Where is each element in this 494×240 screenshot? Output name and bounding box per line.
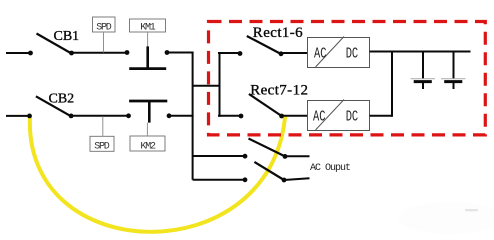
- rectifier U1 box: [308, 38, 370, 68]
- contactor KM1 armature: [146, 46, 149, 67]
- SPD box SPD2: [90, 136, 114, 151]
- node CB2 input: [27, 114, 32, 119]
- wire KM1 box drop: [147, 32, 149, 47]
- wire U1 output bus: [370, 51, 471, 53]
- node AC out 1 right: [283, 154, 288, 159]
- node CB1 output: [69, 51, 74, 56]
- wire SPD1 drop: [103, 32, 105, 53]
- wire CB1 to KM1: [72, 52, 128, 54]
- wire Rect7-12 switch to rectifier U2: [282, 115, 308, 117]
- node KM1 left: [125, 50, 130, 55]
- wire main DC bus vertical: [192, 53, 194, 180]
- wire CB1 input stub: [6, 52, 31, 54]
- contactor KM1 bar: [129, 67, 166, 70]
- capacitor C2 top plate: [441, 78, 466, 80]
- capacitor C1 bottom plate: [414, 80, 432, 83]
- breaker CB2 blade: [36, 96, 71, 116]
- KM1 coil box: [130, 19, 166, 32]
- node AC out 2 right: [282, 178, 287, 183]
- wire AC out 1: [285, 155, 310, 157]
- node CB2 output: [69, 114, 74, 119]
- switch Rect1-6 blade: [247, 36, 281, 54]
- wire SPD2 drop: [102, 116, 104, 136]
- svg-text:Rect7-12: Rect7-12: [250, 82, 308, 98]
- svg-text:KM1: KM1: [140, 23, 156, 34]
- contactor KM2 armature: [148, 101, 151, 123]
- svg-text:KM2: KM2: [140, 141, 156, 152]
- SPD box SPD1: [93, 17, 116, 32]
- svg-text:AC: AC: [314, 45, 327, 62]
- wire U2 output riser: [391, 52, 393, 117]
- wire AC out 2: [284, 178, 310, 180]
- svg-text:DC: DC: [346, 108, 359, 125]
- node KM2 right: [167, 113, 172, 118]
- svg-text:Rect1-6: Rect1-6: [253, 25, 303, 41]
- wire inner bus vertical: [219, 52, 221, 117]
- capacitor C1 top plate: [411, 78, 436, 80]
- wire Rect1-6 switch to rectifier U1: [281, 52, 308, 54]
- wire AC output branch 2: [193, 179, 245, 181]
- wire U2 output: [370, 115, 393, 117]
- capacitor C2 lead: [453, 52, 455, 80]
- wire KM2 box drop: [146, 123, 148, 136]
- svg-text:CB2: CB2: [49, 92, 75, 107]
- wire CB2 to KM2: [71, 115, 128, 117]
- node Rect7-12 right: [279, 114, 284, 119]
- wire KM2 to main bus: [169, 115, 194, 117]
- node CB1 input: [28, 51, 33, 56]
- contactor KM2 bar: [129, 100, 167, 103]
- switch Rect7-12 blade: [249, 94, 282, 116]
- svg-text:AC: AC: [313, 108, 326, 125]
- capacitor C2 bottom plate: [444, 80, 462, 83]
- wire bus rung: [193, 85, 220, 87]
- node AC out 1 left: [243, 154, 248, 159]
- node KM2 left: [126, 113, 131, 118]
- svg-text:SPD: SPD: [94, 142, 110, 153]
- capacitor C1 lead: [422, 52, 424, 80]
- capacitor C2 stub: [453, 82, 455, 89]
- svg-text:CB1: CB1: [54, 29, 80, 44]
- switch AC out 1 blade: [249, 139, 286, 157]
- node Rect1-6 left: [238, 51, 243, 56]
- node Rect7-12 left: [239, 114, 244, 119]
- wire to Rect1-6 switch: [218, 52, 240, 54]
- yellow highlight arc: [30, 116, 285, 232]
- node Rect1-6 right: [279, 51, 284, 56]
- rectifier U2 box: [308, 101, 370, 131]
- breaker CB1 blade: [37, 34, 72, 54]
- wire CB2 input stub: [6, 115, 30, 117]
- wire to Rect7-12 switch: [218, 115, 241, 117]
- switch AC out 2 blade: [254, 162, 284, 180]
- KM2 coil box: [130, 136, 165, 151]
- wire KM1 to main bus: [167, 52, 194, 54]
- svg-text:DC: DC: [346, 45, 359, 62]
- wire AC output branch 1: [193, 155, 245, 157]
- rectifier U1 diagonal: [316, 37, 345, 68]
- red dashed enclosure (rectifier cabinet): [209, 22, 486, 135]
- capacitor C1 stub: [422, 82, 424, 89]
- node KM1 right: [165, 50, 170, 55]
- rectifier U2 diagonal: [316, 100, 345, 131]
- svg-text:SPD: SPD: [96, 23, 112, 34]
- svg-text:AC Ouput: AC Ouput: [310, 163, 350, 174]
- node AC out 2 left: [243, 177, 248, 182]
